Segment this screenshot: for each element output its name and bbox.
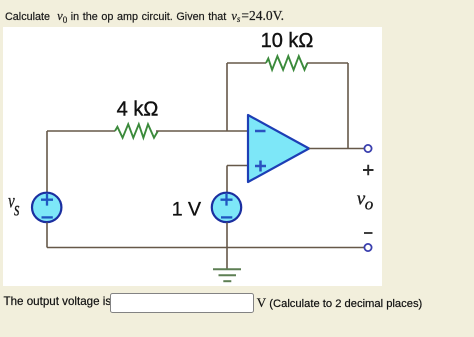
bottom units text	[257, 295, 422, 311]
wire left vertical upper	[46, 131, 48, 192]
svg-text:4 kΩ: 4 kΩ	[117, 99, 159, 121]
1V minus mark	[221, 216, 232, 218]
VS minus mark	[42, 216, 53, 218]
source 1V circle	[212, 193, 241, 222]
terminal lower output circle	[364, 244, 371, 251]
svg-text:s: s	[14, 197, 20, 220]
svg-text:vo: vo	[357, 188, 373, 213]
wire noninverting vertical to 1V source	[226, 166, 228, 194]
op-amp U1 triangle	[248, 115, 309, 182]
label output minus	[364, 232, 373, 234]
svg-text:10 kΩ: 10 kΩ	[261, 30, 314, 52]
wire left vertical lower	[46, 223, 48, 248]
title text	[5, 10, 284, 26]
wire noninverting input horizontal	[227, 165, 248, 167]
resistor R-feedback 10k zigzag	[266, 56, 307, 70]
wire feedback right vertical	[347, 63, 349, 149]
wire 4k left horizontal	[47, 130, 115, 132]
wire top-left feedback vertical	[226, 63, 228, 131]
svg-text:1 V: 1 V	[172, 199, 201, 221]
wire top horizontal left of 10k	[227, 62, 266, 64]
wire bottom rail	[47, 247, 364, 249]
label output plus	[363, 165, 374, 175]
circuit panel	[3, 27, 382, 286]
bottom prompt text	[4, 295, 112, 308]
wire 1V to ground vertical	[226, 223, 228, 270]
wire 4k right horizontal into inverting input	[156, 130, 248, 132]
1V plus mark	[221, 194, 233, 206]
op-amp plus input mark	[255, 161, 266, 172]
op-amp minus input mark	[255, 130, 266, 133]
resistor R-input 4k zigzag	[115, 124, 158, 138]
wire top horizontal right of 10k	[307, 62, 348, 64]
VS plus mark	[41, 194, 53, 206]
terminal upper output circle	[364, 145, 371, 152]
answer input box	[110, 293, 254, 313]
ground symbol	[213, 268, 241, 270]
wire output horizontal	[309, 148, 364, 150]
source VS circle	[32, 193, 61, 222]
